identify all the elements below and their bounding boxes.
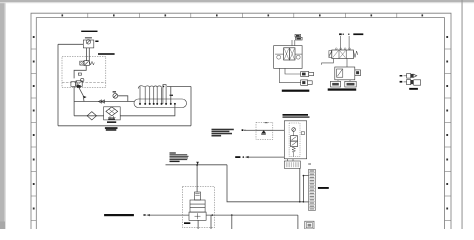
wire: front valve upper feed bbox=[303, 176, 308, 202]
label: note line5 bbox=[170, 159, 188, 160]
label: port tag right of pump bbox=[95, 41, 98, 43]
label: SUPPLY (HYDRAULIC SYSTEM) bbox=[104, 214, 134, 216]
hose control valve dashed box bbox=[256, 122, 273, 139]
aux second stage body bbox=[335, 67, 355, 80]
cartridge spool box1 bbox=[291, 136, 298, 141]
label: small text above pump bbox=[85, 37, 92, 38]
aux second stage inner block bbox=[337, 69, 343, 77]
aux1 coupling1 fill bbox=[411, 74, 414, 78]
label: note line6 bbox=[170, 161, 180, 162]
platform QD coupling1 body bbox=[301, 72, 309, 77]
left border zone ticks bbox=[31, 49, 36, 221]
valve internal stub lines bbox=[293, 131, 295, 156]
aux second stage QD fill bbox=[356, 71, 359, 74]
return filter element line bbox=[109, 109, 115, 114]
platform QD coupling2 body bbox=[301, 80, 308, 85]
platform QD coupling2 fill bbox=[302, 81, 305, 84]
wire: case drain line to tank gallery bbox=[74, 101, 134, 103]
valve V1 solenoid block bbox=[80, 61, 84, 65]
top grey margin strip bbox=[0, 0, 474, 2]
filter bypass marks bbox=[108, 116, 116, 119]
label: port tag right of connector bbox=[308, 163, 311, 164]
aux1 coupling1 nose bbox=[413, 74, 416, 77]
bottom connector inner marks bbox=[306, 223, 312, 228]
strainer base bbox=[189, 212, 206, 220]
wire: note leader line bbox=[166, 164, 228, 166]
label: suction tag bbox=[184, 222, 190, 224]
inline check valve on drain line bbox=[99, 100, 105, 103]
coil connector block bbox=[284, 161, 300, 168]
right border zone letter dots bbox=[446, 36, 448, 210]
wire: supply line bbox=[147, 214, 189, 216]
accumulator dashed box bbox=[182, 187, 214, 228]
node aux dot1 bbox=[343, 34, 344, 35]
filter bypass dark bar bbox=[108, 118, 115, 119]
wire: strainer drain bbox=[197, 220, 199, 229]
platform valve spool box1 bbox=[284, 48, 290, 60]
aux1 coupling2 socket bbox=[414, 80, 421, 85]
label: basic power ground valve title line2 bbox=[283, 116, 310, 117]
wire: return line to filter bbox=[74, 115, 104, 117]
coil connector pins bbox=[286, 162, 299, 167]
node P dot bbox=[244, 130, 245, 131]
wire: platform valve work line1 bbox=[285, 68, 301, 74]
wire: enclosure top right segment bbox=[167, 86, 191, 88]
wire: aux valve tank link bbox=[322, 59, 334, 65]
hose comb verticals bbox=[140, 86, 162, 104]
label: hose note line3 bbox=[212, 133, 233, 135]
valve V2 arrows bbox=[77, 81, 82, 86]
platform valve outer body bbox=[274, 46, 302, 69]
label: TANK bbox=[235, 156, 240, 158]
label: hose note line4 bbox=[212, 135, 222, 137]
label: PLATFORM OPTION bbox=[282, 90, 310, 92]
left border zone letter dots bbox=[33, 36, 35, 210]
strainer neck bbox=[195, 192, 201, 200]
valve V1 arrow bbox=[85, 61, 89, 65]
aux valve arrows bbox=[333, 51, 346, 58]
label: TK tag at gallery bbox=[170, 95, 173, 96]
platform valve cross arrows bbox=[284, 49, 294, 60]
label: aux1 port dash2 bbox=[400, 81, 403, 83]
supply arrowhead bbox=[147, 214, 150, 216]
aux valve right spring bbox=[354, 51, 358, 58]
aux bottom connector1 bbox=[331, 81, 341, 87]
strainer base marks bbox=[195, 213, 201, 219]
wire: platform valve work line2 bbox=[279, 68, 300, 82]
return filter diamond bbox=[106, 107, 118, 116]
cartridge check circle bbox=[292, 128, 296, 132]
right grey separator line bbox=[462, 0, 463, 229]
strainer body bbox=[190, 200, 205, 212]
platform QD coupling1 mate bbox=[309, 72, 314, 75]
power ground valve outer body bbox=[284, 121, 306, 159]
return filter box bbox=[104, 107, 121, 120]
label: FRONT VALVE bbox=[318, 187, 329, 189]
strainer neck marks bbox=[195, 194, 199, 196]
pump P1 arrow bbox=[87, 40, 91, 43]
wire: gallery exit down bbox=[174, 104, 176, 108]
valve V2 solenoid blob bbox=[77, 85, 81, 88]
aux valve cell dividers bbox=[339, 50, 346, 59]
node aux dot2 bbox=[348, 34, 349, 35]
wire: enclosure bottom edge bbox=[58, 125, 191, 127]
outer border frame bbox=[31, 13, 451, 229]
wire: aux valve work link bbox=[346, 59, 348, 68]
wire: supply line right of strainer bbox=[206, 214, 298, 216]
label: note line3 bbox=[170, 156, 189, 157]
label: return filter title line2 bbox=[106, 129, 117, 131]
left grey margin strip bbox=[0, 0, 5, 229]
right border zone ticks bbox=[445, 49, 452, 221]
wire: valve to coil connector stubs bbox=[288, 159, 293, 161]
wire: aux1 stub1 bbox=[404, 75, 407, 77]
aux valve left solenoid bbox=[329, 51, 332, 58]
platform left pilot circle bbox=[277, 55, 281, 59]
valve V2 side element bbox=[71, 82, 76, 87]
label: L node tag bbox=[143, 214, 145, 216]
aux bottom connector2 fill bbox=[347, 83, 355, 86]
label: pump title bar bbox=[81, 31, 97, 32]
label: note line4 bbox=[170, 157, 188, 158]
strainer body lines bbox=[190, 204, 205, 207]
label: AUX 1 bbox=[409, 88, 418, 90]
wire: supply to bottom connector bbox=[297, 215, 299, 229]
wire: V2 drain diagonal bbox=[79, 87, 85, 102]
wire: P supply line bbox=[246, 129, 256, 131]
valve V1 body bbox=[84, 61, 89, 66]
wire: gallery riser to enclosure bbox=[170, 87, 172, 104]
label: tag in dashed box corner bbox=[265, 122, 268, 123]
tank line arrowhead bbox=[245, 156, 248, 158]
orifice on pilot line bbox=[78, 73, 81, 75]
hose control valve through line bbox=[256, 129, 273, 131]
wire: front valve lower feed bbox=[303, 201, 308, 203]
label: hose note line1 bbox=[212, 129, 234, 131]
pump P1 circle bbox=[86, 40, 90, 44]
wire: manifold left return vertical bbox=[73, 87, 75, 116]
hose control check seat bar bbox=[261, 134, 266, 135]
cartridge spool arrows bbox=[292, 137, 297, 146]
aux bottom connector1 fill bbox=[332, 83, 339, 86]
aux1 coupling2 body bbox=[407, 80, 411, 85]
aux second stage QD bbox=[355, 70, 361, 76]
aux bottom connector2 bbox=[345, 81, 356, 87]
cartridge spring bbox=[292, 147, 296, 152]
label: basic power ground valve title line1 bbox=[283, 114, 309, 116]
platform QD coupling2 mate bbox=[308, 81, 313, 85]
label: RV1 tag bbox=[113, 91, 116, 92]
label: note line2 bbox=[170, 154, 188, 155]
platform option top connector A fill bbox=[296, 35, 300, 36]
flow arrowhead on feed bbox=[196, 162, 199, 165]
relief valve RV1 circle bbox=[113, 93, 118, 98]
label: aux gd port tag1 bbox=[339, 33, 342, 35]
wire: supply branch down1 bbox=[210, 215, 212, 229]
wire: V1 to V2 bbox=[74, 66, 86, 79]
platform valve spool box2 bbox=[289, 48, 295, 60]
aux1 coupling1 body bbox=[407, 74, 411, 79]
inner border frame bbox=[36, 18, 444, 229]
pump P1 body bbox=[83, 40, 94, 48]
traction manifold dashed enclosure bbox=[62, 56, 106, 87]
node dot supply junction2 bbox=[231, 214, 233, 216]
wire: gallery to filter bbox=[120, 108, 175, 116]
node dot at front valve bus1 bbox=[299, 201, 301, 203]
wire: enclosure right edge bbox=[190, 87, 192, 126]
front valve terminal strip bbox=[309, 169, 316, 210]
label: traction manifold title bar bbox=[98, 53, 115, 55]
label: AUX 1 & AUX GD bbox=[328, 88, 357, 90]
wire: enclosure left edge bbox=[57, 44, 59, 126]
terminal strip inner cells bbox=[309, 173, 316, 208]
bottom connector block bbox=[305, 221, 314, 229]
aux second stage arrow bbox=[337, 70, 342, 77]
label: filter tag line bbox=[107, 121, 116, 123]
valve V1 spring bbox=[89, 61, 94, 65]
valve V2 pilot circle bbox=[81, 78, 84, 81]
check valve diamond D1 bbox=[87, 112, 96, 120]
platform right pilot circle bbox=[296, 55, 300, 59]
terminal strip cell labels bbox=[310, 170, 315, 209]
hose control check valve bbox=[261, 130, 266, 133]
wire: valve inlet line bbox=[273, 129, 285, 131]
aux1 coupling2 fill bbox=[411, 80, 414, 84]
wire: second stage to connectors bbox=[338, 80, 350, 82]
wire: connector to platform valve bbox=[292, 40, 295, 46]
wire: aux feed lines bbox=[341, 36, 350, 50]
valve V2 body bbox=[76, 81, 82, 87]
cartridge port rect bbox=[301, 132, 304, 135]
platform QD coupling1 fill bbox=[302, 73, 306, 76]
node dot at front valve bus2 bbox=[303, 201, 305, 203]
label: AUX GD tag bbox=[353, 33, 363, 35]
platform option top connector B bbox=[296, 37, 303, 40]
flow arrowhead on drain bbox=[83, 96, 86, 98]
dash-dot gauge line through manifold bbox=[62, 82, 106, 84]
cartridge spool box2 bbox=[291, 141, 298, 147]
node T dot bbox=[243, 156, 245, 158]
label: NOTE heading bbox=[170, 152, 176, 153]
cartridge arrow bbox=[292, 128, 295, 131]
aux solenoid pilot circles bbox=[335, 48, 350, 50]
label: P port bbox=[242, 129, 244, 131]
label: aux1 port dash1 bbox=[400, 75, 403, 77]
aux valve body bbox=[332, 50, 354, 59]
wire: suction into pump bbox=[58, 43, 83, 45]
node dot at front valve top bbox=[303, 175, 305, 177]
tank return gallery (stadium) bbox=[134, 99, 187, 108]
wire: RV1 to drain line bbox=[118, 96, 128, 102]
label: return filter title line1 bbox=[105, 127, 118, 129]
wire: pump outlet lines bbox=[87, 48, 90, 61]
node dot at staple bbox=[163, 86, 165, 88]
wire: aux1 stub2 bbox=[404, 81, 407, 83]
wire: coil connector to front valve bbox=[299, 168, 301, 202]
node dot supply junction1 bbox=[212, 214, 214, 216]
bottom-left grey corner nub bbox=[0, 222, 5, 230]
label: hose note line2 bbox=[212, 131, 230, 133]
wire: supply branch down2 bbox=[231, 215, 233, 229]
wire: accumulator feed vertical bbox=[196, 165, 198, 192]
wire: drop to front valve bbox=[227, 165, 303, 202]
power ground valve inner dashed cartridge bbox=[289, 123, 300, 157]
wire: tank line with arrow bbox=[246, 156, 285, 158]
hose wave crossing bbox=[138, 86, 161, 89]
relief valve RV1 arrow bbox=[114, 94, 117, 97]
gallery junction dots bbox=[139, 103, 176, 105]
top border zone ticks bbox=[88, 13, 397, 17]
platform option top connector A bbox=[295, 34, 301, 36]
top border zone letter dots bbox=[62, 14, 424, 16]
hose staple bbox=[163, 85, 166, 104]
platform option top connector B fill bbox=[297, 38, 301, 40]
platform pilot stubs bbox=[275, 53, 302, 55]
